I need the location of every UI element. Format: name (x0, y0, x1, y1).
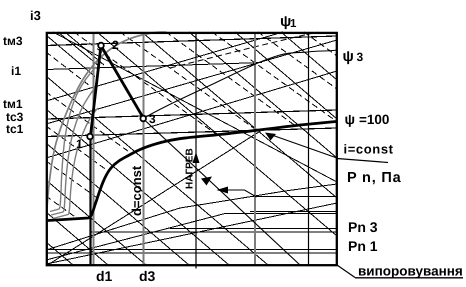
wire vertical black line x=196 with up arrow (193, 32, 200, 267)
svg-text:d3: d3 (139, 268, 156, 284)
wire dashed diagonal family (slope 0.72, ends at saturation curve) (46, 32, 337, 219)
node vertical gray line x=255 (254, 32, 256, 265)
curve phi-1 gray arc (47, 32, 166, 209)
curve gray cluster c3 (53, 108, 98, 219)
svg-text:1: 1 (76, 137, 83, 151)
wire Pn horizontal pair y=228.5 (170, 228, 337, 230)
node point 3 circle (140, 116, 146, 122)
svg-text:tc1: tc1 (6, 122, 24, 136)
wire dashed rising line upper right (170, 32, 318, 68)
wire Pn rising line R2 with saturation bend (46, 214, 337, 261)
svg-text:ψ: ψ (345, 111, 356, 127)
node d3 vertical gray line (143, 32, 145, 265)
wire evaporation line through point 3 with mid arrowhead (144, 119, 301, 265)
curve psi=100 thick saturation line (48, 122, 336, 221)
svg-text:i1: i1 (11, 64, 21, 78)
svg-text:i=const: i=const (344, 142, 394, 157)
wire wet-bulb rising family (slope -0.29) (46, 32, 337, 158)
wire Pn horizontal y=232 (90, 231, 337, 233)
svg-text:tм1: tм1 (3, 97, 23, 111)
annotation horizontal arrow pointing left with bent tail (217, 187, 257, 198)
wire isotherm tc1 through point 1 (46, 128, 337, 137)
annotation i=const underline segment outside frame (337, 159, 388, 163)
svg-text:Pn 1: Pn 1 (348, 238, 378, 254)
svg-text:P n, Па: P n, Па (347, 170, 402, 186)
svg-text:НАГРЕВ: НАГРЕВ (185, 148, 196, 189)
svg-text:3: 3 (149, 112, 156, 126)
curve psi3 through point 3 rising to right edge (144, 50, 338, 119)
wire Pn rising line R1 (46, 203, 337, 264)
svg-text:ψ: ψ (343, 48, 354, 65)
wire Pn rising line R3 (46, 184, 337, 250)
svg-text:Pn 3: Pn 3 (348, 219, 378, 235)
wire Pn1 horizontal y=253 (46, 252, 337, 254)
curve gray cluster c2 (51, 87, 96, 215)
wire i=const diagonal family (thin black, slope 0.85) (46, 32, 337, 265)
wire Pn3 horizontal y=249.5 (46, 249, 337, 251)
mask outside frame top (0, 0, 466, 31)
mask outside frame bottom (0, 267, 466, 287)
wire Pn horizontal y=211.5 (250, 211, 337, 213)
svg-text:3: 3 (357, 50, 364, 64)
svg-text:d1: d1 (96, 268, 113, 284)
wire isotherm at i1 level (46, 63, 262, 70)
mask outside frame right (339, 0, 466, 287)
node point 2 circle (98, 43, 104, 49)
svg-text:d=const: d=const (129, 165, 144, 216)
svg-text:випоровування: випоровування (358, 264, 463, 279)
process line 2-3 thick (102, 48, 142, 116)
svg-text:=100: =100 (359, 112, 389, 127)
svg-text:2: 2 (112, 38, 119, 52)
wire rising line from bottom-left corner steep (46, 130, 262, 266)
wire isotherm tm3 near-horizontal (46, 36, 337, 46)
label evaporation bottom right (337, 264, 463, 279)
svg-text:i3: i3 (30, 8, 41, 23)
wire vertical black line x=308.5 (308, 32, 310, 265)
annotation arrow to i=const line (from label, pointing up-left) (265, 133, 337, 159)
axis frame (47, 33, 337, 265)
node point 1 circle (87, 134, 93, 140)
mask outside frame left (0, 0, 45, 287)
process line point1 down to axis thick (89, 138, 91, 265)
svg-text:1: 1 (290, 18, 297, 30)
svg-text:tм3: tм3 (3, 34, 23, 48)
node d1 vertical gray line (93, 32, 95, 265)
wire isotherm tc3 through point 3 (46, 110, 337, 119)
wire x=196 tick below axis (195, 265, 197, 269)
curve gray cluster c1 (50, 67, 96, 212)
wire Pn horizontal y=196 (250, 196, 337, 198)
process line 1-2 thick (91, 49, 101, 135)
